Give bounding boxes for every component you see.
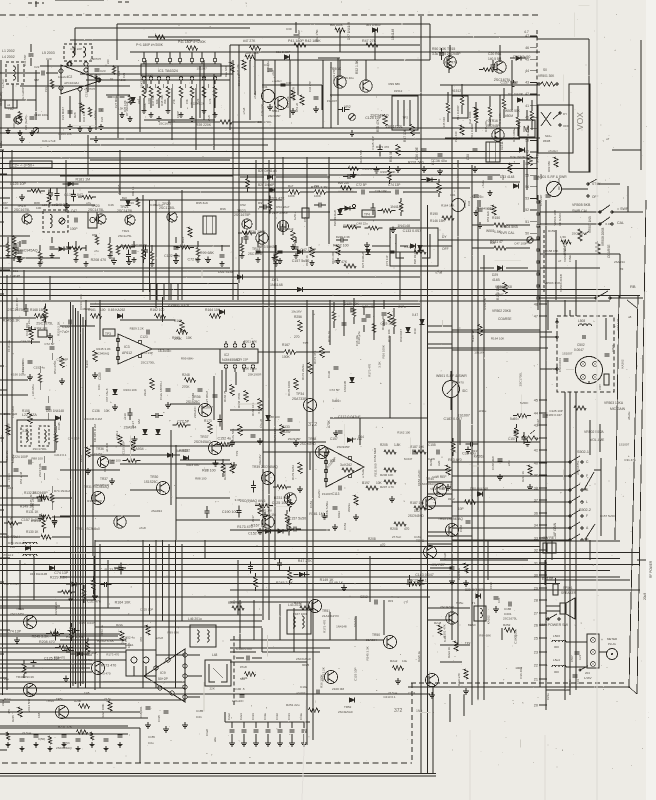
svg-text:100P: 100P	[176, 111, 180, 118]
svg-text:R88 100: R88 100	[268, 415, 280, 419]
svg-text:C183 0.047: C183 0.047	[546, 413, 562, 417]
inductor L504	[552, 665, 566, 667]
wire top frame line D	[230, 44, 420, 46]
svg-text:1S1007: 1S1007	[619, 443, 630, 447]
node IC1 pin top	[200, 58, 204, 62]
capacitor leftmid col	[50, 494, 53, 503]
ground	[527, 440, 529, 443]
svg-text:R53 9uK: R53 9uK	[486, 211, 490, 222]
ground	[273, 255, 275, 258]
svg-text:41: 41	[525, 104, 529, 108]
diode D69	[345, 206, 350, 211]
wire bus D6	[0, 699, 185, 701]
svg-text:C13B: C13B	[57, 422, 61, 430]
resistor R28 tl	[80, 103, 84, 113]
svg-text:C23: C23	[100, 69, 106, 73]
wire tl h2	[80, 73, 233, 75]
node pin 33	[539, 537, 546, 539]
ground	[419, 578, 421, 581]
svg-text:2SC1u75L: 2SC1u75L	[118, 234, 132, 238]
svg-text:S502-2: S502-2	[579, 508, 591, 512]
resistor topright col	[474, 113, 478, 123]
ground top mid 6	[479, 222, 481, 225]
svg-text:2SA934: 2SA934	[124, 425, 137, 429]
resistor network under IC1	[142, 87, 146, 98]
svg-text:C12u 18P/CH: C12u 18P/CH	[159, 381, 163, 400]
capacitor C159	[198, 388, 203, 390]
resistor R36	[127, 459, 137, 463]
svg-text:u.7u0u: u.7u0u	[361, 468, 365, 478]
resistor R255 2.3K	[230, 463, 234, 473]
wire mesh h56	[430, 567, 452, 569]
capacitor C134	[251, 434, 256, 436]
svg-text:u139: u139	[123, 413, 127, 420]
svg-text:C20: C20	[46, 57, 52, 61]
svg-text:u7u0u: u7u0u	[253, 91, 257, 99]
svg-text:R53 470: R53 470	[444, 61, 458, 65]
svg-text:27: 27	[534, 612, 538, 616]
transistor TR27	[284, 493, 296, 505]
svg-text:C502: C502	[577, 343, 585, 347]
wire top band v2	[374, 30, 376, 60]
svg-text:2.2K: 2.2K	[2, 206, 9, 210]
ground mr2	[465, 580, 467, 583]
resistor R176	[280, 425, 284, 436]
svg-text:1S1007: 1S1007	[322, 492, 333, 496]
capacitor C168 u7u	[450, 566, 455, 568]
svg-text:R208 470: R208 470	[91, 258, 107, 262]
wire left h 446	[90, 445, 230, 447]
capacitor C74 13P	[395, 190, 397, 195]
transistor TR30	[157, 482, 170, 495]
svg-text:L503: L503	[553, 634, 560, 638]
svg-text:0.01: 0.01	[605, 222, 611, 226]
wire vert pair x95	[94, 540, 96, 690]
wire bottom right step borders	[408, 686, 630, 688]
node IC9 pin side	[170, 691, 174, 695]
resistor R44 680 v	[230, 62, 234, 72]
node IC1 pin bottom	[190, 77, 194, 81]
capacitor top band	[294, 34, 299, 36]
svg-text:EXT SP: EXT SP	[542, 577, 553, 581]
diode D24 1N46P	[269, 188, 274, 193]
capacitor C125	[119, 566, 124, 568]
wire tl v4	[199, 66, 201, 118]
switch S502-1 contact C	[569, 461, 571, 463]
wire bus B0	[0, 270, 540, 272]
svg-text:9Ru5: 9Ru5	[302, 663, 310, 667]
svg-text:TR43 2SC945AQ: TR43 2SC945AQ	[438, 517, 463, 521]
wire dashed unit border top	[0, 14, 540, 16]
capacitor C502	[582, 335, 584, 339]
svg-text:C125 10P: C125 10P	[365, 116, 382, 120]
wire l4 down	[12, 84, 14, 108]
svg-text:1N41uB: 1N41uB	[117, 184, 121, 194]
wire bus B6	[90, 306, 420, 308]
capacitor C193 001	[494, 596, 499, 598]
wire mesh h17	[60, 325, 95, 327]
svg-text:C36 40E: C36 40E	[415, 146, 419, 160]
svg-text:C157 5u50: C157 5u50	[292, 259, 310, 263]
wire left edge tick	[0, 413, 10, 415]
resistor R160 270K	[60, 357, 64, 368]
wire bus B extra 1	[0, 267, 230, 269]
svg-text:VR501 30K: VR501 30K	[538, 74, 555, 78]
capacitor C18	[6, 114, 11, 116]
node mic box	[543, 543, 556, 553]
ground	[113, 258, 115, 261]
wire left edge tick	[0, 437, 4, 439]
capacitor C32b	[474, 194, 479, 196]
capacitor midcol	[362, 318, 367, 320]
resistor R53b 94K	[492, 205, 496, 215]
svg-text:R173 470: R173 470	[322, 620, 326, 633]
ground trrow	[133, 257, 135, 260]
wire vertical rail 9	[471, 165, 473, 705]
svg-text:R34 47K: R34 47K	[334, 260, 348, 264]
wire mesh v34	[65, 160, 67, 212]
svg-text:u030u: u030u	[478, 409, 487, 413]
svg-text:2SC945P: 2SC945P	[288, 437, 301, 441]
svg-text:1N8: 1N8	[84, 691, 90, 695]
svg-text:R55 47K: R55 47K	[376, 118, 380, 132]
wire IC3 out	[152, 348, 175, 350]
svg-text:#212: #212	[448, 497, 455, 501]
wire tl v3	[117, 66, 119, 138]
capacitor C125	[28, 327, 30, 332]
wire L501 feeds	[540, 336, 557, 338]
wire antenna entry	[0, 72, 24, 74]
svg-text:= SWR: = SWR	[617, 207, 629, 211]
resistor R221 560	[232, 606, 244, 610]
resistor network under IC1	[179, 87, 183, 98]
resistor small trrow	[274, 252, 277, 261]
svg-text:VOX: VOX	[575, 112, 585, 130]
ground br0	[495, 606, 497, 609]
wire bus C7	[0, 583, 560, 585]
transistor TR54 right	[446, 612, 458, 624]
svg-text:AF612: AF612	[122, 351, 132, 355]
resistor R240 8.2K	[438, 625, 442, 635]
svg-text:L50?: L50?	[598, 384, 602, 390]
diode D68 1N4148	[350, 377, 355, 382]
node pin 28	[539, 599, 546, 601]
resistor R164	[142, 249, 146, 259]
wire ic1 rail drop	[321, 85, 323, 110]
resistor R53	[72, 246, 82, 250]
resistor R178 K262	[342, 468, 354, 472]
svg-text:C125 10P: C125 10P	[371, 136, 375, 149]
svg-text:1u50+: 1u50+	[293, 212, 297, 220]
node IC9 pin	[183, 685, 187, 689]
svg-text:u1u8-2: u1u8-2	[115, 430, 119, 440]
capacitor C38	[473, 148, 478, 150]
capacitor C47	[347, 174, 349, 179]
svg-text:2SC1675L: 2SC1675L	[14, 208, 30, 212]
wire bl h1	[0, 635, 118, 637]
svg-text:<KW RET: <KW RET	[541, 536, 556, 540]
svg-text:D74 1N41uB: D74 1N41uB	[54, 489, 71, 493]
svg-text:270K: 270K	[174, 337, 183, 341]
wire mesh v6	[213, 100, 215, 150]
svg-text:KA262: KA262	[11, 454, 15, 463]
svg-text:+7u0u=: +7u0u=	[272, 79, 282, 83]
svg-text:R256: R256	[294, 315, 302, 319]
resistor R245 col	[18, 707, 22, 717]
capacitor midcol	[392, 318, 395, 327]
svg-text:3.3K: 3.3K	[117, 107, 123, 111]
switch OFF toggle	[587, 195, 589, 197]
svg-text:R209: R209	[429, 458, 433, 466]
ground lm6	[334, 524, 336, 527]
resistor R206 10K	[384, 468, 396, 472]
wire vert pair x100	[99, 544, 101, 688]
svg-text:R88 100: R88 100	[31, 457, 43, 461]
svg-text:#u6 100K: #u6 100K	[330, 23, 343, 27]
svg-text:C31: C31	[262, 85, 268, 89]
trimmer C71 1u50	[302, 208, 309, 218]
svg-text:R22u: R22u	[116, 623, 124, 627]
wire mesh h54	[440, 661, 462, 663]
diode B29 1N4007	[475, 594, 480, 599]
capacitor C506 rot	[573, 674, 578, 676]
resistor R137 1K	[478, 325, 482, 336]
xtal XF1 box	[88, 212, 97, 228]
svg-text:#1512: #1512	[452, 89, 461, 93]
svg-text:R173 470: R173 470	[106, 652, 119, 656]
svg-text:u8: u8	[628, 315, 632, 319]
wire mesh h37	[230, 529, 330, 531]
transistor TR15	[444, 56, 456, 68]
svg-text:100: 100	[100, 308, 106, 312]
svg-text:R181 1M: R181 1M	[259, 509, 272, 513]
ground bm3	[465, 688, 467, 691]
svg-text:2001: 2001	[52, 203, 59, 207]
svg-text:C36 40u: C36 40u	[342, 76, 354, 80]
capacitor right col B	[546, 194, 551, 196]
capacitor C33b 45u	[488, 176, 493, 178]
svg-text:L30: L30	[10, 545, 15, 549]
diode D42 col2	[156, 429, 161, 434]
resistor R150 1.5K	[494, 223, 506, 227]
svg-text:C504 R001: C504 R001	[558, 357, 562, 372]
svg-text:C157 5u50: C157 5u50	[289, 517, 307, 521]
resistor small trrow	[84, 254, 89, 256]
node pin 40	[539, 462, 546, 464]
svg-text:C74 13P: C74 13P	[616, 319, 620, 331]
svg-text:R159: R159	[548, 229, 556, 233]
wire bus C1	[0, 546, 540, 548]
resistor network under IC1	[190, 87, 194, 98]
svg-text:1S1007: 1S1007	[498, 286, 509, 290]
capacitor C122 47u	[68, 320, 70, 325]
svg-text:VR507 1KB: VR507 1KB	[588, 216, 592, 233]
svg-text:R130 1K: R130 1K	[26, 530, 39, 534]
svg-text:R167: R167	[282, 343, 290, 347]
svg-text:R2u7 100K: R2u7 100K	[101, 703, 105, 718]
svg-text:0.01: 0.01	[257, 407, 261, 413]
svg-text:+: +	[601, 638, 603, 642]
svg-text:C79 22P: C79 22P	[260, 104, 264, 116]
wire mesh h29	[180, 459, 230, 461]
diode D38	[516, 56, 521, 61]
resistor R181	[242, 231, 252, 235]
svg-text:R97: R97	[258, 201, 264, 205]
svg-text:u7u0u=: u7u0u=	[548, 149, 558, 153]
wire bus D4	[0, 687, 185, 689]
svg-text:2SC1475L: 2SC1475L	[88, 208, 104, 212]
ground mid left 4	[114, 404, 116, 407]
svg-text:u0.007: u0.007	[296, 691, 306, 695]
resistor R99	[82, 589, 86, 599]
svg-text:C185: C185	[196, 709, 204, 713]
capacitor bl row	[104, 738, 109, 740]
svg-text:C36 40u: C36 40u	[72, 681, 84, 685]
wire meter drop	[526, 148, 528, 190]
ground p4b	[489, 190, 491, 193]
capacitor C47	[237, 510, 242, 512]
ground	[343, 584, 345, 587]
svg-text:D27 1N41uB: D27 1N41uB	[361, 252, 365, 268]
svg-text:C21 u7uF: C21 u7uF	[42, 139, 56, 143]
svg-text:R54 0E: R54 0E	[389, 150, 393, 162]
ground NJM 4	[335, 430, 337, 433]
svg-text:R28: R28	[73, 112, 77, 118]
svg-text:R245 3.3K: R245 3.3K	[366, 646, 370, 660]
wire mesh h26	[230, 429, 300, 431]
capacitor C155 0.1W	[436, 450, 438, 455]
diode D49	[420, 319, 425, 324]
wire dashed border bottom right vertical	[411, 683, 413, 763]
resistor R229 470	[146, 625, 150, 635]
svg-text:C125 10P: C125 10P	[380, 321, 393, 325]
wire mesh v0	[35, 70, 37, 120]
node crystal filter box	[126, 650, 156, 676]
diode D34	[68, 182, 73, 187]
resistor R330E	[414, 250, 426, 254]
node pin 38	[539, 487, 546, 489]
svg-text:C152 4u: C152 4u	[123, 636, 135, 640]
svg-text:R167 100K: R167 100K	[380, 170, 395, 174]
svg-text:FINE PINE: FINE PINE	[563, 239, 567, 255]
svg-text:C31: C31	[450, 193, 456, 197]
svg-text:D49: D49	[413, 328, 417, 334]
ground network	[150, 112, 152, 115]
capacitor C133	[277, 562, 282, 564]
svg-text:RB: RB	[630, 284, 636, 289]
ground trrow	[85, 261, 87, 264]
diode D66	[266, 415, 271, 420]
svg-text:15K: 15K	[185, 99, 189, 104]
ground network	[191, 116, 193, 119]
resistor R168 15K	[35, 314, 46, 318]
svg-text:2SC945P: 2SC945P	[268, 114, 280, 118]
svg-text:2SC1475L: 2SC1475L	[117, 209, 133, 213]
resistor R132 h	[39, 496, 49, 500]
resistor R164	[381, 209, 391, 213]
svg-text:C195: C195	[157, 715, 161, 722]
wire bus A2	[0, 157, 538, 159]
node IC1 pin top	[168, 58, 172, 62]
node IC2 pin	[68, 62, 72, 66]
node NJM pin top 4	[251, 344, 255, 348]
capacitor C133	[522, 436, 527, 438]
svg-text:Pu5 640: Pu5 640	[454, 131, 458, 142]
resistor R247 100K	[108, 701, 112, 711]
diode D14	[278, 529, 283, 534]
svg-text:BEAD: BEAD	[468, 623, 476, 627]
wire lm connect rows	[0, 497, 38, 499]
svg-text:R229 2.2K: R229 2.2K	[321, 667, 325, 681]
wire mesh v29	[221, 370, 223, 430]
wire bl rail	[0, 725, 128, 727]
svg-text:R158: R158	[22, 409, 30, 413]
diode DA2 col	[143, 429, 148, 434]
wire bl h2	[0, 643, 126, 645]
wire rf power stub	[637, 559, 646, 561]
svg-text:R159: R159	[85, 360, 89, 368]
svg-text:u70uH 2: u70uH 2	[2, 553, 14, 557]
capacitor C190 sym	[240, 694, 245, 696]
capacitor C183	[490, 64, 495, 66]
svg-text:D74 1N4148: D74 1N4148	[8, 541, 25, 545]
resistor topright col	[530, 111, 534, 121]
resistor R252 47	[505, 628, 516, 632]
svg-text:L13: L13	[42, 203, 47, 207]
svg-text:KA262: KA262	[474, 454, 485, 458]
svg-text:C157 5u50: C157 5u50	[500, 80, 518, 84]
wire mesh v53	[605, 318, 607, 340]
wire mesh v51	[589, 540, 591, 560]
svg-text:A20: A20	[437, 460, 441, 466]
svg-text:R86 680: R86 680	[6, 241, 10, 252]
svg-text:FINE: FINE	[568, 255, 572, 262]
wire bus A5	[0, 174, 500, 176]
wire rb link	[540, 297, 596, 299]
wire mesh v36	[139, 96, 141, 132]
transistor TR39	[262, 472, 275, 485]
wire right rail 619	[615, 296, 619, 540]
svg-text:18.3u46=: 18.3u46=	[158, 349, 172, 353]
svg-text:SPEAKER: SPEAKER	[561, 591, 577, 595]
wire bus C3	[0, 558, 620, 560]
node right col pin circle	[537, 201, 540, 204]
svg-text:C155: C155	[428, 443, 436, 447]
resistor R167	[22, 664, 26, 674]
svg-text:<uW REF: <uW REF	[432, 475, 446, 479]
svg-text:R131 1K: R131 1K	[26, 510, 39, 514]
wire left edge tick	[0, 341, 10, 343]
capacitor C191 bottom row	[291, 722, 293, 728]
wire top mid links	[339, 60, 341, 77]
resistor R90 15K	[116, 246, 119, 255]
capacitor C157	[13, 247, 18, 249]
svg-text:2SC945AQ D: 2SC945AQ D	[420, 482, 440, 486]
svg-text:TR49 2SC16: TR49 2SC16	[16, 675, 34, 679]
svg-text:000: 000	[554, 645, 559, 649]
svg-text:R53 470: R53 470	[448, 458, 462, 462]
svg-text:R164 10K: R164 10K	[205, 308, 221, 312]
svg-text:R146 15K: R146 15K	[430, 219, 445, 223]
svg-text:204: 204	[585, 671, 590, 675]
capacitor C48	[293, 527, 295, 532]
node IC1 pin bottom	[149, 77, 153, 81]
svg-text:2SC1730L: 2SC1730L	[258, 120, 273, 124]
transistor TR46 D62	[423, 497, 436, 510]
op-amp IC9 power amp triangle	[144, 649, 185, 702]
resistor R69 row	[188, 227, 192, 237]
capacitor C129 10K	[350, 308, 352, 313]
